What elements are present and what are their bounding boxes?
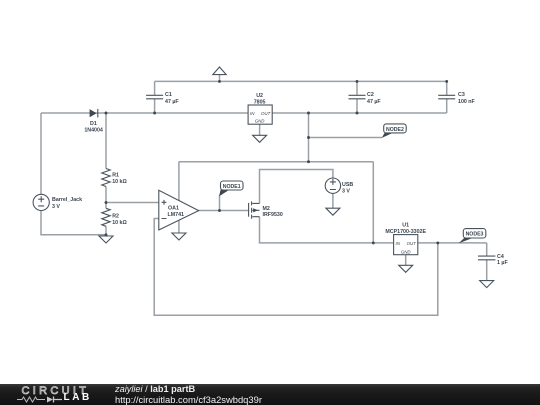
resistor R1 xyxy=(102,169,128,187)
ground (U2) xyxy=(253,135,267,142)
VCC power symbol xyxy=(213,67,226,75)
wire: top supply rail xyxy=(155,80,447,82)
junction: divider midpoint xyxy=(105,201,108,204)
junction: R2 bottom xyxy=(105,233,108,236)
wire: M2 source up and over to USB + xyxy=(260,170,333,204)
junction: C2 top on rail xyxy=(356,80,359,83)
wire: divider midpoint to op-amp + input xyxy=(106,202,159,204)
svg-text:OUT: OUT xyxy=(261,111,271,116)
wire: USB - to ground xyxy=(332,193,334,208)
wire: VCC stem xyxy=(219,75,221,82)
wire: C4 branch to ground xyxy=(486,243,488,281)
junction: NODE1 anchor on gate wire xyxy=(218,209,221,212)
capacitor C2 xyxy=(349,92,382,105)
ground (C4) xyxy=(480,281,494,288)
wire: U1 OUT to C4 xyxy=(418,242,487,244)
svg-text:47 µF: 47 µF xyxy=(367,99,381,105)
svg-text:GND: GND xyxy=(255,119,266,124)
junction: NODE2 stub xyxy=(307,136,310,139)
svg-text:NODE1: NODE1 xyxy=(223,184,241,190)
wire: U1 GND stem xyxy=(405,255,407,266)
svg-text:NODE2: NODE2 xyxy=(386,127,404,133)
svg-text:U2: U2 xyxy=(256,93,263,99)
junction: C3 top on rail corner xyxy=(445,80,448,83)
junction: C1 bottom on main net xyxy=(153,112,156,115)
wire: barrel jack - down and right to R2 bottom xyxy=(41,211,106,235)
svg-text:OUT: OUT xyxy=(407,241,417,246)
svg-text:U1: U1 xyxy=(402,223,409,229)
wire: C1 branch xyxy=(154,81,156,113)
wire: C3 branch xyxy=(446,81,448,113)
wire: NODE1 flag stem xyxy=(219,196,221,211)
wire: R1/R2 middle segment xyxy=(105,187,107,209)
svg-text:C2: C2 xyxy=(367,92,374,98)
wire: main top net from barrel jack through D1 to U2 IN xyxy=(41,112,248,114)
svg-text:GND: GND xyxy=(401,249,412,254)
diode D1 xyxy=(84,109,103,133)
wire: left vertical to barrel jack + xyxy=(40,113,42,194)
svg-text:C1: C1 xyxy=(165,92,172,98)
svg-text:7805: 7805 xyxy=(254,100,266,106)
capacitor C3 xyxy=(438,92,475,105)
footer bar xyxy=(0,384,540,405)
wire: U2 OUT to C3 xyxy=(272,112,447,114)
ground (U1) xyxy=(399,265,413,272)
svg-text:IRF9530: IRF9530 xyxy=(263,212,283,218)
svg-text:R1: R1 xyxy=(112,173,119,179)
junction: mid rail at x=308.5 xyxy=(307,160,310,163)
wire: U2 GND stem xyxy=(259,124,261,135)
node NODE1 flag xyxy=(219,181,243,196)
regulator U2 7805 xyxy=(248,93,272,124)
svg-text:47 µF: 47 µF xyxy=(165,99,179,105)
svg-text:1 µF: 1 µF xyxy=(497,260,508,266)
svg-text:C3: C3 xyxy=(458,92,465,98)
ground (OA1) xyxy=(172,233,186,240)
wire: NODE2 vertical branch xyxy=(308,113,310,162)
svg-text:USB: USB xyxy=(342,182,353,188)
svg-text:OA1: OA1 xyxy=(168,206,179,212)
source Barrel_Jack 3V xyxy=(33,194,82,210)
svg-text:R2: R2 xyxy=(112,214,119,220)
svg-text:10 kΩ: 10 kΩ xyxy=(112,220,127,226)
CircuitLab logo xyxy=(22,385,90,397)
svg-text:3 V: 3 V xyxy=(342,188,350,194)
wire: R2 bottom stem to ground xyxy=(105,226,107,236)
wire: C2 branch xyxy=(356,81,358,113)
svg-text:C4: C4 xyxy=(497,254,504,260)
wire: op-amp output to M2 gate xyxy=(199,210,249,212)
junction: U1 OUT tee xyxy=(436,241,439,244)
svg-text:Barrel_Jack: Barrel_Jack xyxy=(52,197,82,203)
svg-text:1N4004: 1N4004 xyxy=(84,127,103,133)
junction: C2 bottom on main net xyxy=(356,112,359,115)
svg-text:100 nF: 100 nF xyxy=(458,99,476,105)
wire: OA1 GND stem xyxy=(178,220,180,233)
node NODE2 flag xyxy=(382,124,407,138)
op-amp OA1 LM741 xyxy=(159,190,199,230)
svg-text:3 V: 3 V xyxy=(52,204,60,210)
junction: R1 top on main net xyxy=(105,112,108,115)
wire: vertical from mid rail to U1 IN xyxy=(372,162,374,243)
node NODE3 flag xyxy=(459,229,486,244)
wire: M2 drain down to U1 IN xyxy=(260,217,394,243)
capacitor C1 xyxy=(146,92,179,105)
wire: feedback from op-amp - input around bottom to U1 OUT xyxy=(154,219,438,316)
junction: VCC on top rail xyxy=(218,80,221,83)
source USB 3V xyxy=(325,178,353,194)
wire: mid rail to M2 loop xyxy=(179,161,373,163)
regulator U1 MCP1700-3302E xyxy=(385,223,426,255)
wire: R1 top stem xyxy=(105,113,107,169)
transistor M2 IRF9530 (PMOS) xyxy=(249,201,283,218)
wire: op-amp V+ stem xyxy=(178,162,180,201)
svg-text:D1: D1 xyxy=(90,121,97,127)
svg-text:NODE3: NODE3 xyxy=(466,232,484,238)
resistor R2 xyxy=(102,208,128,226)
svg-text:MCP1700-3302E: MCP1700-3302E xyxy=(385,229,426,235)
svg-text:LM741: LM741 xyxy=(168,212,185,218)
svg-text:10 kΩ: 10 kΩ xyxy=(112,179,127,185)
ground (R2 / barrel jack) xyxy=(99,236,113,243)
junction: U1 IN tee xyxy=(372,241,375,244)
junction: NODE2 branch on main net xyxy=(307,112,310,115)
ground (USB) xyxy=(326,208,340,215)
capacitor C4 xyxy=(478,254,508,266)
wire: NODE2 horizontal stub xyxy=(309,137,382,139)
